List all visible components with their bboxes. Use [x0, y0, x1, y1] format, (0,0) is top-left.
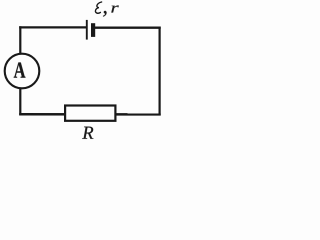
ammeter body circle	[5, 54, 40, 89]
battery label: comma	[103, 11, 106, 17]
wire: top left segment, ammeter corner to battery positive plate	[19, 26, 86, 28]
wire: bottom branch through resistor	[19, 113, 161, 116]
wire: top right segment, battery negative plate to right corner	[93, 27, 161, 29]
resistor body rectangle	[65, 106, 115, 121]
wire: left vertical branch through ammeter	[19, 26, 21, 115]
resistor label R	[82, 127, 93, 139]
battery label: script E (emf symbol)	[95, 2, 101, 13]
wire: right vertical branch	[159, 27, 161, 116]
ammeter letter A	[14, 62, 26, 77]
battery cell: short thick plate	[91, 23, 95, 37]
battery cell: long thin plate	[86, 20, 88, 40]
battery label: internal resistance r	[111, 6, 118, 13]
